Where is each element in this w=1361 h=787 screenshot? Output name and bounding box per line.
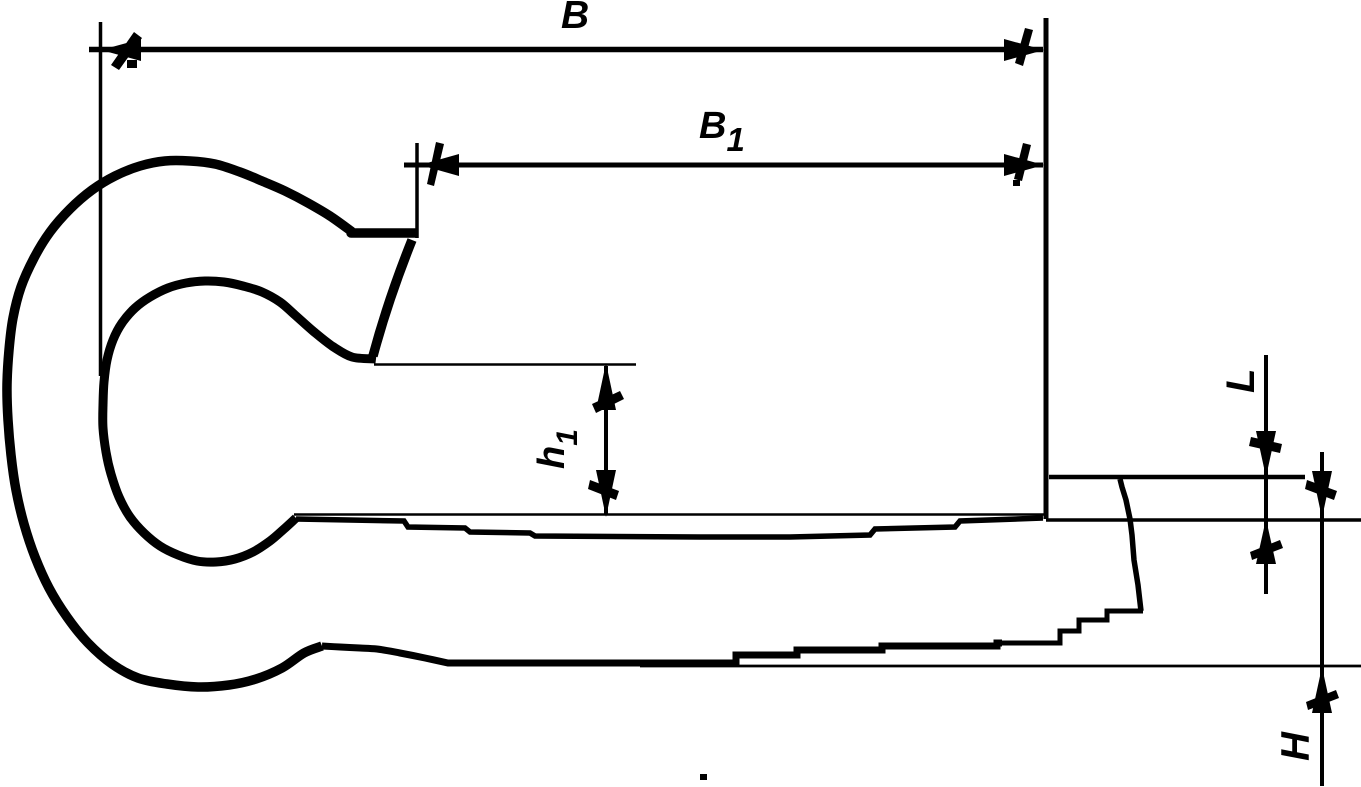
part outline: inner curl contour <box>103 281 376 562</box>
wire: dimension line B <box>89 47 1043 53</box>
wire: thin surface reference line left part <box>294 513 1046 516</box>
node: arrowhead h1 up <box>592 363 624 413</box>
wire: right vertical extension line (B and B1, body right edge) <box>1044 18 1049 519</box>
svg-text:B: B <box>561 0 589 37</box>
svg-text:H: H <box>1274 731 1318 761</box>
node: arrowhead L down (above lip top line) <box>1249 431 1282 477</box>
node: arrowhead B1 left <box>420 142 459 186</box>
wire: thin surface extension line to right edge <box>1046 518 1361 521</box>
wire: left extension line for B <box>99 22 103 376</box>
part outline: outer curl contour <box>7 161 416 688</box>
wire: dimension line B1 <box>404 163 1043 168</box>
node: arrowhead H up (below bottom line) <box>1306 667 1339 713</box>
node: arrowhead L up (below surface line) <box>1250 519 1283 564</box>
part outline: lip top edge with L extension <box>1049 475 1305 480</box>
wire: extension line for h1 top <box>374 363 636 366</box>
wire: bottom extension line for H <box>640 665 1361 668</box>
part outline: top surface of base plate (thick scanned line) <box>296 518 1043 537</box>
wire: dimension line H (vertical) <box>1320 452 1324 786</box>
part outline: plate bottom edge <box>322 643 1002 663</box>
node: arrowhead H down (above surface line) <box>1305 471 1337 518</box>
part outline: right end face jagged edge <box>1120 479 1141 611</box>
svg-text:L: L <box>1219 369 1263 393</box>
wire: dimension line h1 <box>604 366 608 514</box>
part outline: slanted end face of curl lip <box>373 240 412 356</box>
node: arrowhead B1 right <box>1004 143 1044 186</box>
node: arrowhead h1 down <box>588 470 619 517</box>
node: arrowhead B left <box>101 32 142 70</box>
node: stray dot bottom center <box>700 774 707 780</box>
wire: extension line for B1 at notch <box>415 143 419 238</box>
node: arrowhead B right <box>1004 28 1044 66</box>
wire: dimension line L (vertical) <box>1264 355 1268 594</box>
part outline: right end underside staircase <box>1000 611 1143 643</box>
